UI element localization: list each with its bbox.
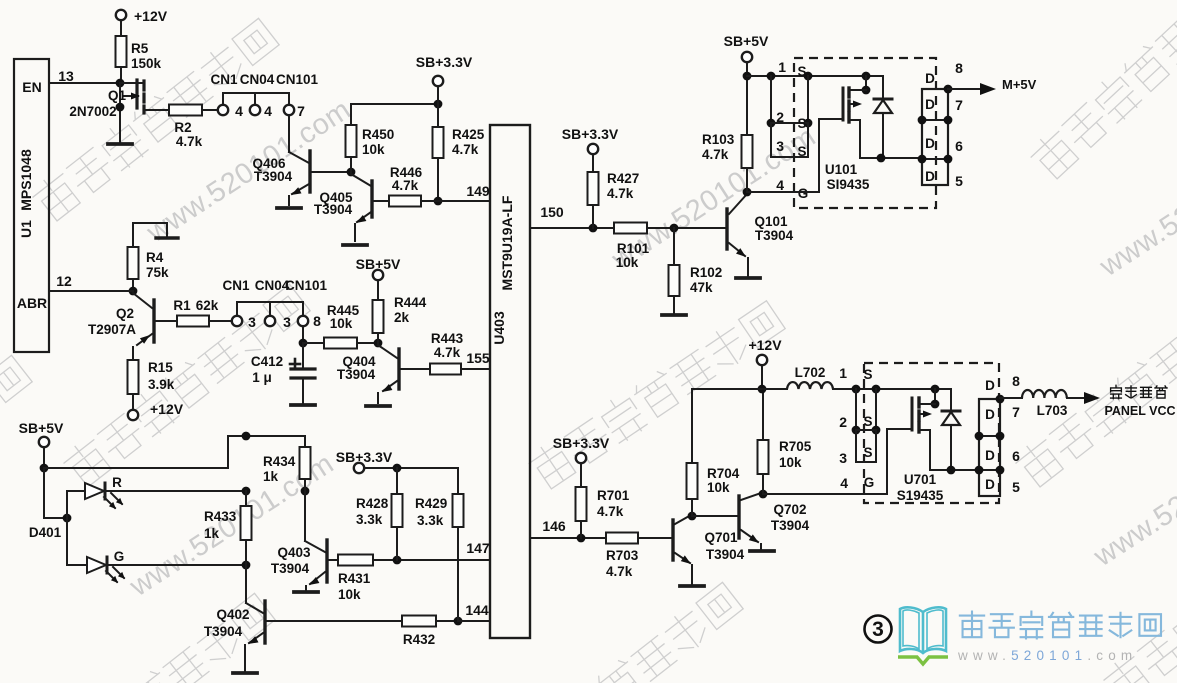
svg-text:D: D xyxy=(985,378,995,393)
svg-text:D: D xyxy=(985,407,995,422)
svg-text:T3904: T3904 xyxy=(755,228,794,243)
svg-text:Q403: Q403 xyxy=(277,545,311,560)
svg-text:4.7k: 4.7k xyxy=(607,186,634,201)
svg-text:4.7k: 4.7k xyxy=(597,504,624,519)
svg-text:8: 8 xyxy=(955,60,963,76)
svg-text:U1: U1 xyxy=(18,220,34,238)
svg-text:2: 2 xyxy=(839,414,847,430)
svg-text:SI9435: SI9435 xyxy=(827,177,870,192)
svg-text:4: 4 xyxy=(776,177,784,193)
svg-text:Q101: Q101 xyxy=(754,214,788,229)
svg-text:155: 155 xyxy=(466,350,490,366)
svg-text:2k: 2k xyxy=(394,310,410,325)
svg-text:7: 7 xyxy=(297,103,305,119)
svg-text:D: D xyxy=(925,169,935,184)
svg-text:R444: R444 xyxy=(394,295,427,310)
svg-text:1k: 1k xyxy=(204,526,220,541)
svg-text:R102: R102 xyxy=(690,265,722,280)
svg-text:Q702: Q702 xyxy=(773,502,806,517)
svg-text:S: S xyxy=(797,116,806,131)
svg-text:R1: R1 xyxy=(173,298,191,313)
svg-text:2N7002: 2N7002 xyxy=(69,104,116,119)
svg-text:+12V: +12V xyxy=(134,8,168,24)
svg-text:3: 3 xyxy=(248,314,256,330)
svg-text:S19435: S19435 xyxy=(897,488,944,503)
svg-text:G: G xyxy=(798,186,809,201)
svg-text:R427: R427 xyxy=(607,171,639,186)
svg-text:D: D xyxy=(925,97,935,112)
svg-text:T3904: T3904 xyxy=(271,561,310,576)
svg-text:CN101: CN101 xyxy=(285,278,328,293)
svg-text:3: 3 xyxy=(283,314,291,330)
svg-text:SB+5V: SB+5V xyxy=(356,256,401,272)
svg-text:47k: 47k xyxy=(690,280,713,295)
svg-text:G: G xyxy=(864,475,875,490)
svg-text:SB+3.3V: SB+3.3V xyxy=(336,449,393,465)
svg-text:62k: 62k xyxy=(196,298,219,313)
svg-text:4.7k: 4.7k xyxy=(702,147,729,162)
svg-text:1k: 1k xyxy=(263,469,279,484)
svg-text:R2: R2 xyxy=(174,120,191,135)
svg-text:6: 6 xyxy=(955,138,963,154)
svg-text:4.7k: 4.7k xyxy=(176,134,203,149)
svg-text:T3904: T3904 xyxy=(254,169,293,184)
svg-text:R701: R701 xyxy=(597,488,630,503)
svg-text:10k: 10k xyxy=(362,142,385,157)
svg-text:R425: R425 xyxy=(452,127,485,142)
svg-text:S: S xyxy=(863,414,872,429)
svg-text:R703: R703 xyxy=(606,548,639,563)
svg-text:10k: 10k xyxy=(338,587,361,602)
svg-text:CN1: CN1 xyxy=(222,278,249,293)
svg-text:146: 146 xyxy=(542,518,566,534)
svg-text:L703: L703 xyxy=(1037,403,1068,418)
svg-text:CN1: CN1 xyxy=(210,72,237,87)
svg-text:R443: R443 xyxy=(431,331,464,346)
svg-text:10k: 10k xyxy=(330,316,353,331)
svg-text:R704: R704 xyxy=(707,466,740,481)
svg-text:1 μ: 1 μ xyxy=(252,370,272,385)
svg-text:MPS1048: MPS1048 xyxy=(18,149,34,211)
svg-text:3.3k: 3.3k xyxy=(356,512,383,527)
svg-text:T3904: T3904 xyxy=(706,547,745,562)
svg-text:M+5V: M+5V xyxy=(1002,77,1037,92)
svg-text:U701: U701 xyxy=(904,472,937,487)
svg-text:SB+3.3V: SB+3.3V xyxy=(553,435,610,451)
svg-text:3: 3 xyxy=(839,450,847,466)
svg-text:150: 150 xyxy=(540,204,564,220)
svg-text:+12V: +12V xyxy=(150,401,184,417)
svg-text:3.9k: 3.9k xyxy=(148,377,175,392)
svg-text:U101: U101 xyxy=(825,162,858,177)
svg-text:3: 3 xyxy=(872,618,884,641)
svg-text:7: 7 xyxy=(1012,404,1020,420)
svg-text:4.7k: 4.7k xyxy=(452,142,479,157)
svg-text:R705: R705 xyxy=(779,439,812,454)
svg-text:4.7k: 4.7k xyxy=(434,345,461,360)
svg-text:CN04: CN04 xyxy=(240,72,275,87)
svg-text:Q402: Q402 xyxy=(216,607,249,622)
svg-text:SB+3.3V: SB+3.3V xyxy=(416,54,473,70)
svg-text:www.520101.com: www.520101.com xyxy=(957,648,1137,663)
svg-text:MST9U19A-LF: MST9U19A-LF xyxy=(499,195,515,290)
svg-text:10k: 10k xyxy=(707,480,730,495)
svg-text:147: 147 xyxy=(466,540,490,556)
svg-text:EN: EN xyxy=(22,79,41,95)
svg-text:Q701: Q701 xyxy=(704,530,738,545)
svg-text:PANEL VCC: PANEL VCC xyxy=(1104,404,1175,418)
svg-text:CN101: CN101 xyxy=(276,72,319,87)
svg-text:R434: R434 xyxy=(263,454,296,469)
svg-text:T3904: T3904 xyxy=(314,202,353,217)
svg-text:13: 13 xyxy=(58,68,74,84)
svg-text:R103: R103 xyxy=(702,132,735,147)
svg-text:S: S xyxy=(863,445,872,460)
svg-text:D: D xyxy=(925,136,935,151)
svg-text:G: G xyxy=(114,549,125,564)
svg-text:4.7k: 4.7k xyxy=(606,564,633,579)
svg-text:S: S xyxy=(863,367,872,382)
svg-text:149: 149 xyxy=(466,183,490,199)
svg-text:R428: R428 xyxy=(356,496,389,511)
svg-text:75k: 75k xyxy=(146,265,169,280)
svg-text:1: 1 xyxy=(839,365,847,381)
svg-text:12: 12 xyxy=(56,273,72,289)
svg-text:ABR: ABR xyxy=(17,295,47,311)
svg-text:R432: R432 xyxy=(403,632,435,647)
svg-text:8: 8 xyxy=(313,313,321,329)
svg-text:7: 7 xyxy=(955,97,963,113)
svg-text:D: D xyxy=(925,71,935,86)
svg-text:R101: R101 xyxy=(617,241,650,256)
svg-text:2: 2 xyxy=(776,109,784,125)
svg-text:D: D xyxy=(985,477,995,492)
svg-text:SB+3.3V: SB+3.3V xyxy=(562,126,619,142)
svg-text:S: S xyxy=(797,64,806,79)
svg-text:SB+5V: SB+5V xyxy=(19,420,64,436)
svg-text:L702: L702 xyxy=(795,365,826,380)
svg-text:144: 144 xyxy=(465,602,489,618)
svg-text:R431: R431 xyxy=(338,571,371,586)
svg-text:D: D xyxy=(985,448,995,463)
svg-text:T3904: T3904 xyxy=(204,624,243,639)
svg-text:D401: D401 xyxy=(29,525,62,540)
svg-text:1: 1 xyxy=(778,59,786,75)
svg-text:4: 4 xyxy=(840,475,848,491)
svg-text:4.7k: 4.7k xyxy=(392,178,419,193)
svg-text:R: R xyxy=(112,475,122,490)
svg-text:T3904: T3904 xyxy=(337,367,376,382)
svg-text:5: 5 xyxy=(955,173,963,189)
svg-text:6: 6 xyxy=(1012,448,1020,464)
svg-text:150k: 150k xyxy=(131,56,162,71)
svg-text:T3904: T3904 xyxy=(771,518,810,533)
svg-text:C412: C412 xyxy=(251,354,283,369)
svg-text:R433: R433 xyxy=(204,509,237,524)
svg-text:R5: R5 xyxy=(131,41,149,56)
svg-text:S: S xyxy=(797,144,806,159)
svg-text:SB+5V: SB+5V xyxy=(724,33,769,49)
svg-text:10k: 10k xyxy=(779,455,802,470)
svg-text:+12V: +12V xyxy=(748,337,782,353)
svg-text:8: 8 xyxy=(1012,373,1020,389)
svg-text:R450: R450 xyxy=(362,127,394,142)
svg-text:4: 4 xyxy=(235,103,243,119)
svg-text:R429: R429 xyxy=(415,496,447,511)
svg-text:3: 3 xyxy=(776,138,784,154)
svg-text:T2907A: T2907A xyxy=(88,322,136,337)
svg-text:Q1: Q1 xyxy=(108,88,127,103)
svg-text:R4: R4 xyxy=(146,250,164,265)
svg-text:U403: U403 xyxy=(491,311,507,345)
svg-text:4: 4 xyxy=(264,103,272,119)
svg-text:10k: 10k xyxy=(616,255,639,270)
svg-text:Q2: Q2 xyxy=(116,306,134,321)
svg-text:3.3k: 3.3k xyxy=(417,513,444,528)
svg-text:R15: R15 xyxy=(148,360,173,375)
svg-text:5: 5 xyxy=(1012,479,1020,495)
